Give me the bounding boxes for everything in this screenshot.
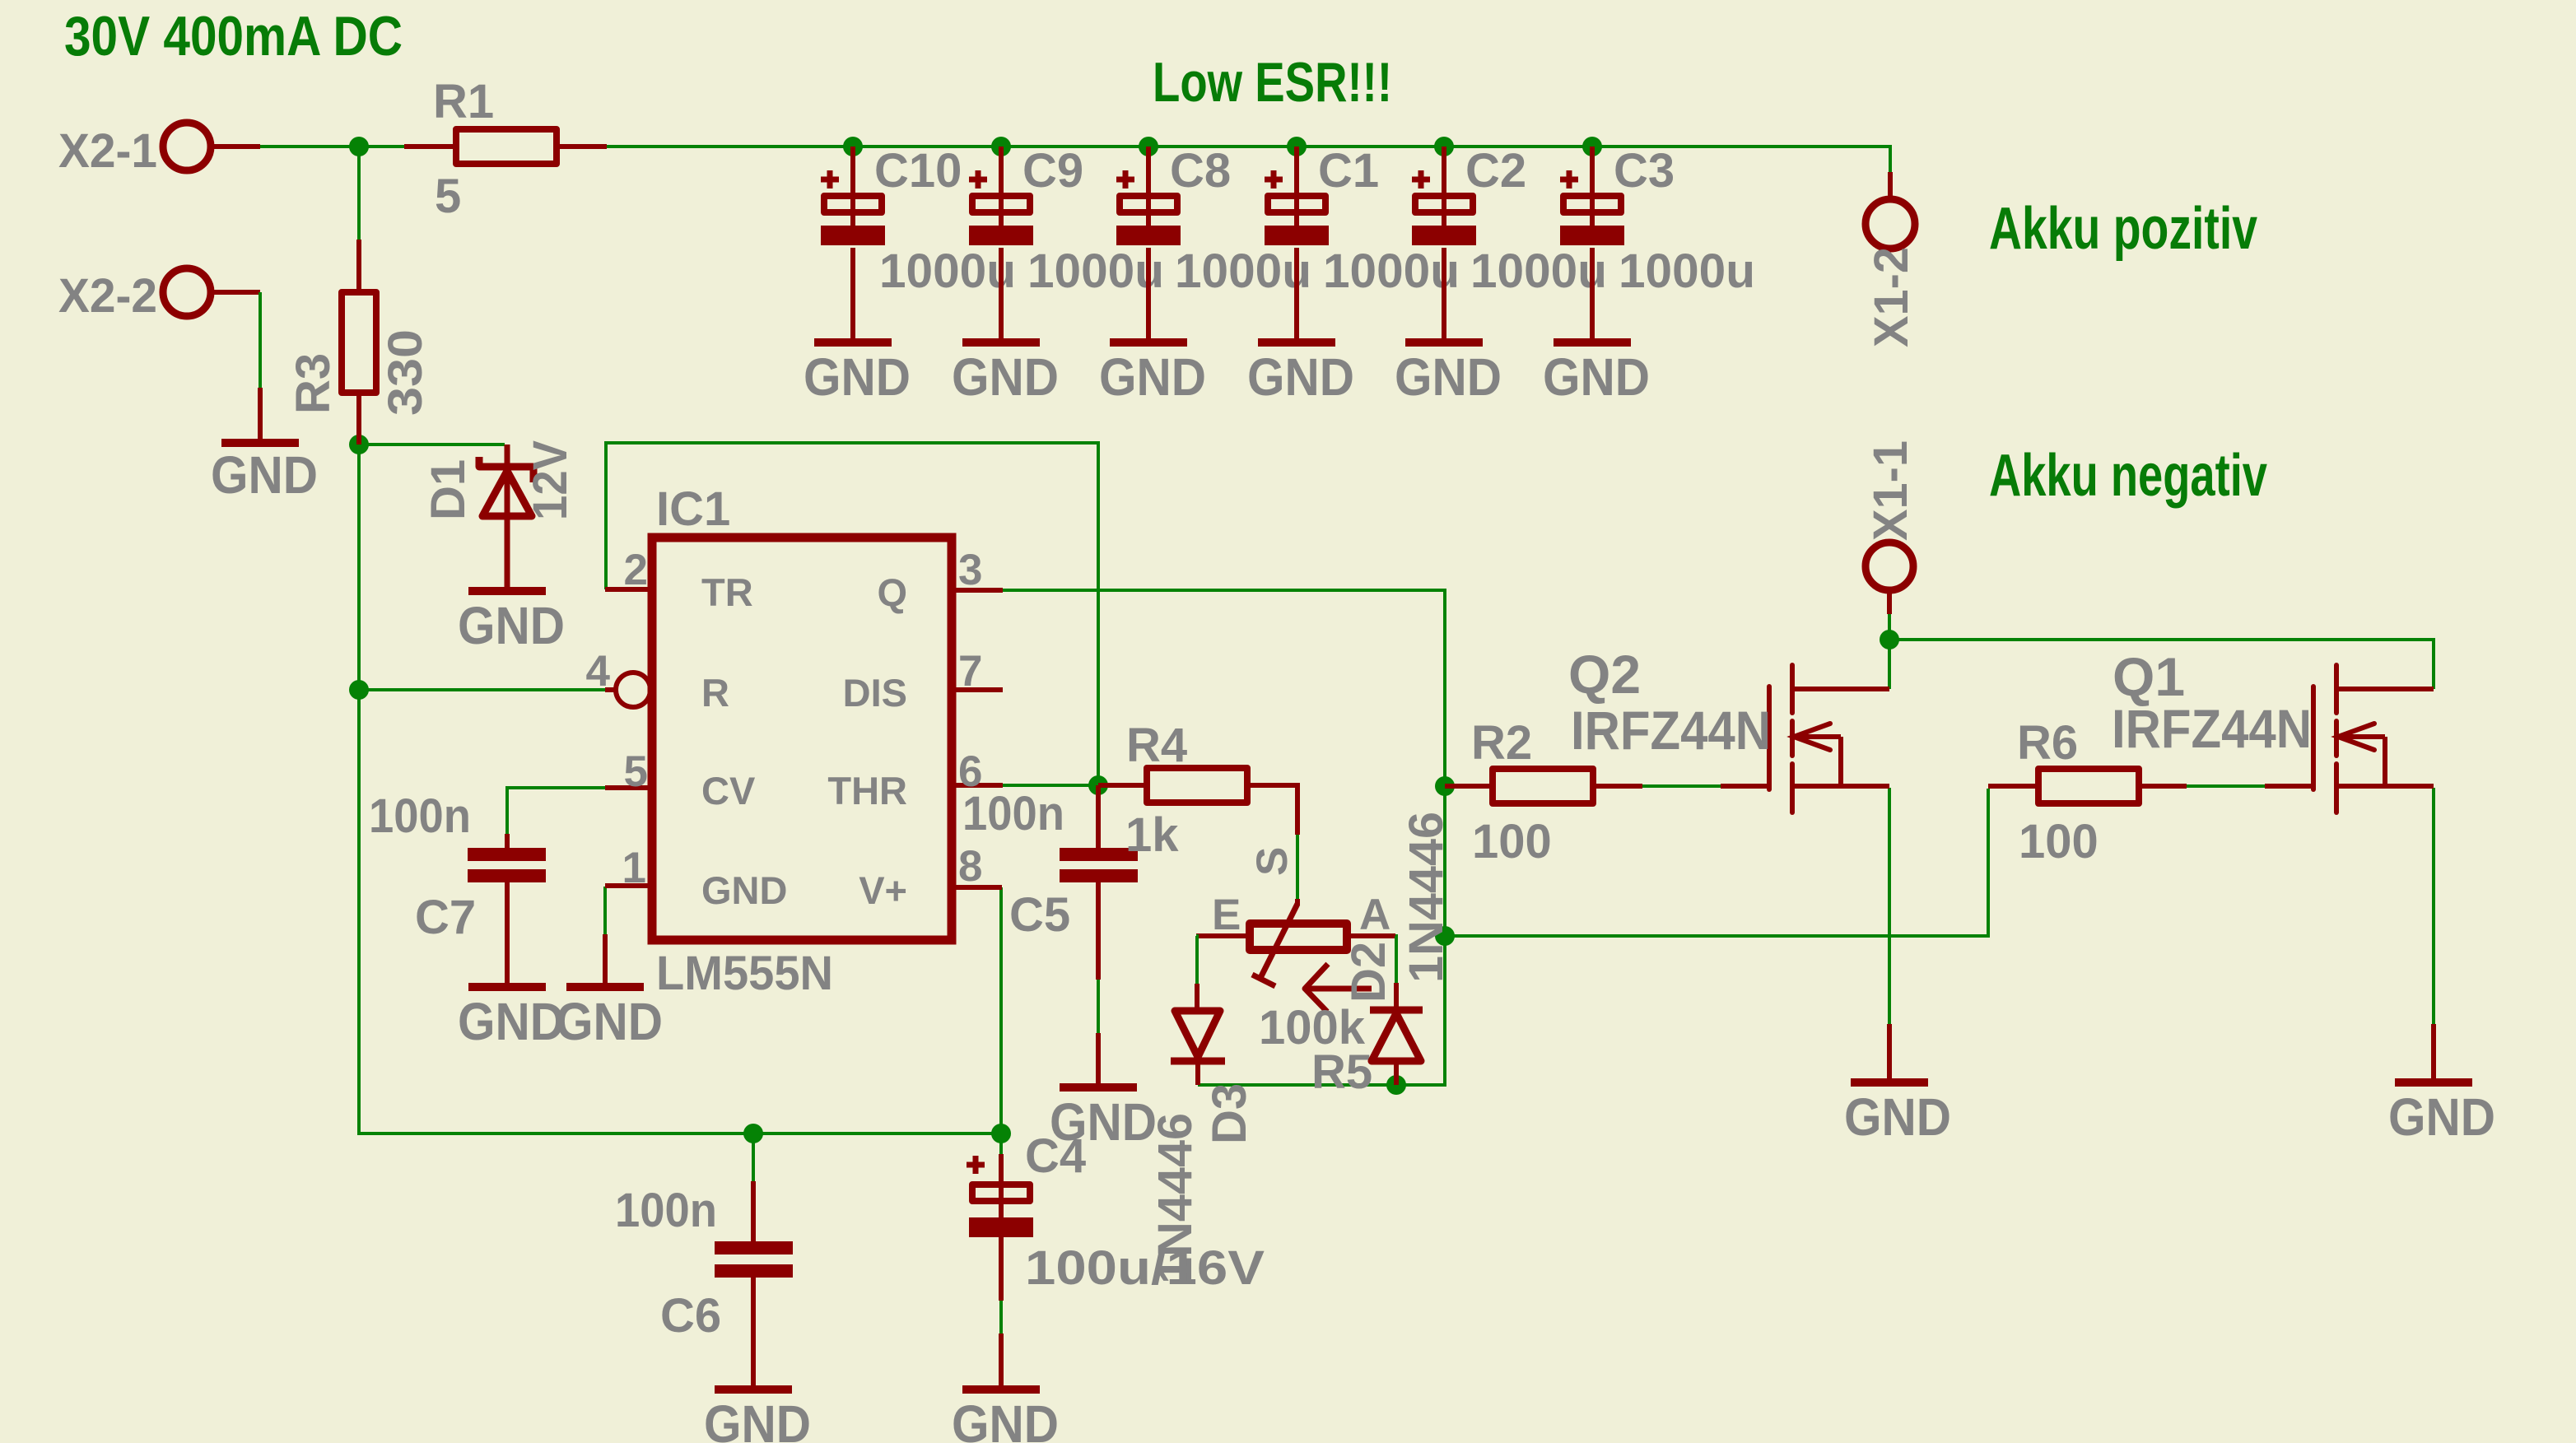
svg-text:330: 330 — [379, 329, 432, 416]
wire pin6 THR to junction — [1003, 784, 1098, 787]
ground symbol below Q2 — [1844, 1024, 1951, 1147]
capacitor C5 100n — [962, 785, 1138, 1083]
junction node R3/D1/rail — [349, 435, 369, 454]
svg-text:100n: 100n — [369, 789, 471, 843]
svg-text:C3: C3 — [1614, 144, 1675, 198]
ground symbol below X2-2 — [211, 388, 318, 505]
wire left 12V rail down and along bottom to V+ — [359, 445, 1001, 1133]
svg-text:C8: C8 — [1170, 144, 1231, 198]
junction node THR/R4/C5 — [1088, 775, 1108, 795]
svg-text:5: 5 — [435, 170, 461, 223]
wire R3 bottom to D1 (12V node) — [359, 443, 505, 446]
wire C4 stub — [999, 1133, 1003, 1154]
svg-text:GND: GND — [1395, 347, 1502, 407]
svg-text:Akku pozitiv: Akku pozitiv — [1989, 196, 2257, 262]
junction node Q/gate-feed — [1435, 926, 1455, 946]
wire C6 stub — [752, 1133, 755, 1181]
capacitor C8 1000u — [1116, 137, 1311, 338]
connector pin X2-1 — [58, 123, 260, 178]
svg-text:Q2: Q2 — [1568, 644, 1641, 705]
svg-text:GND: GND — [804, 347, 911, 407]
pin 6 THR — [827, 747, 1003, 812]
svg-text:1000u: 1000u — [1470, 244, 1607, 298]
svg-text:THR: THR — [827, 769, 907, 812]
ground symbol below C1 — [1247, 338, 1354, 407]
ground symbol below C5 — [1050, 1083, 1157, 1152]
capacitor C7 100n — [369, 789, 546, 983]
capacitor C3 1000u — [1560, 137, 1755, 338]
svg-text:CV: CV — [701, 769, 756, 812]
svg-text:GND: GND — [701, 868, 787, 912]
pin 3 Q — [877, 546, 1003, 614]
capacitor C10 1000u — [821, 137, 1016, 338]
pin 4 R with inversion bubble — [586, 647, 729, 715]
svg-text:DIS: DIS — [843, 671, 907, 715]
svg-text:C6: C6 — [660, 1289, 721, 1343]
ground symbol below pin 1 — [556, 934, 663, 1051]
svg-text:X1-2: X1-2 — [1865, 247, 1918, 347]
svg-text:D3: D3 — [1203, 1083, 1256, 1144]
svg-text:X2-1: X2-1 — [58, 124, 157, 178]
svg-text:GND: GND — [458, 992, 565, 1051]
svg-text:E: E — [1212, 891, 1241, 939]
wire C5 mid segment — [1097, 980, 1100, 1033]
svg-text:12V: 12V — [524, 440, 577, 520]
svg-text:3: 3 — [958, 546, 982, 594]
wire Q output pin3 to R2 and D2/D3 loop — [1003, 590, 1445, 1085]
wire X2-1 to junction and R1 — [260, 145, 404, 148]
resistor R2 100 — [1445, 716, 1642, 868]
svg-text:5: 5 — [624, 747, 648, 796]
svg-text:IRFZ44N: IRFZ44N — [2112, 698, 2312, 759]
diode D3 1N4446 — [1148, 984, 1256, 1284]
svg-text:1: 1 — [622, 844, 646, 892]
svg-text:GND: GND — [952, 347, 1059, 407]
ground symbol below C9 — [952, 338, 1059, 407]
svg-text:1k: 1k — [1125, 808, 1179, 862]
wire CV pin5 to C7 — [507, 788, 605, 834]
wire Q2 source to GND — [1888, 788, 1891, 1024]
svg-text:GND: GND — [458, 596, 565, 655]
ground symbol below C4 — [952, 1385, 1059, 1443]
svg-text:C2: C2 — [1465, 144, 1526, 198]
ground symbol below C8 — [1099, 338, 1206, 407]
capacitor C6 100n — [615, 1181, 793, 1385]
resistor R6 100 — [1988, 716, 2187, 868]
svg-text:100: 100 — [1472, 815, 1552, 868]
svg-text:R3: R3 — [286, 353, 340, 414]
wire V+ pin8 drop to bottom rail — [999, 887, 1003, 1133]
svg-text:R1: R1 — [433, 75, 494, 128]
wire R6 to Q1 gate — [2187, 784, 2265, 788]
capacitor C9 1000u — [969, 137, 1164, 338]
transistor Q2 IRFZ44N — [1568, 644, 1889, 812]
svg-text:C10: C10 — [874, 144, 962, 198]
svg-text:R2: R2 — [1471, 716, 1532, 770]
svg-text:1N4446: 1N4446 — [1148, 1113, 1202, 1284]
zener diode D1 12V — [422, 440, 577, 587]
resistor R4 1k — [1098, 719, 1297, 862]
capacitor C2 1000u — [1412, 137, 1607, 338]
svg-text:Akku negativ: Akku negativ — [1989, 443, 2267, 509]
svg-text:GND: GND — [556, 992, 663, 1051]
svg-text:C1: C1 — [1318, 144, 1379, 198]
resistor R1 — [404, 75, 607, 223]
ground symbol below C2 — [1395, 338, 1502, 407]
ground symbol below C7 — [458, 983, 565, 1051]
svg-text:IC1: IC1 — [656, 482, 730, 536]
svg-text:V+: V+ — [859, 868, 907, 912]
svg-text:1000u: 1000u — [1323, 244, 1460, 298]
junction node X1-1/drains — [1880, 630, 1899, 649]
svg-text:X2-2: X2-2 — [58, 269, 157, 323]
svg-text:8: 8 — [958, 842, 982, 891]
svg-text:C5: C5 — [1009, 888, 1070, 942]
ground symbol below Q1 — [2388, 1024, 2495, 1147]
capacitor C1 1000u — [1265, 137, 1460, 338]
svg-text:C4: C4 — [1025, 1129, 1086, 1183]
connector pin X1-1 — [1864, 440, 1917, 614]
svg-text:R: R — [701, 671, 729, 715]
svg-text:GND: GND — [1099, 347, 1206, 407]
junction node C6 tap — [743, 1124, 763, 1143]
ground symbol below C3 — [1543, 338, 1650, 407]
wire gate feed to R6 — [1445, 789, 1988, 936]
transistor Q1 IRFZ44N — [2112, 646, 2434, 812]
wire junction down to R3 — [357, 147, 361, 240]
svg-text:GND: GND — [1247, 347, 1354, 407]
svg-text:4: 4 — [586, 647, 611, 696]
wire X1-1 to drains of Q2 and Q1 — [1888, 614, 1891, 640]
svg-text:Q: Q — [877, 570, 907, 614]
junction node V+/C4 — [991, 1124, 1011, 1143]
op-amp/timer IC1 LM555N body — [652, 482, 952, 1000]
pin 8 V+ — [859, 842, 1002, 912]
svg-text:1000u: 1000u — [1619, 244, 1755, 298]
wire A pin to D2 — [1395, 936, 1396, 983]
svg-text:D1: D1 — [422, 459, 475, 520]
wire E pin to D3 — [1196, 936, 1197, 984]
svg-text:X1-1: X1-1 — [1864, 440, 1917, 541]
svg-text:GND: GND — [704, 1394, 811, 1443]
svg-text:GND: GND — [952, 1394, 1059, 1443]
svg-text:30V 400mA DC: 30V 400mA DC — [64, 5, 403, 67]
capacitor C4 100u/16V — [967, 1129, 1265, 1385]
resistor R3 — [286, 240, 432, 445]
svg-text:R5: R5 — [1311, 1045, 1372, 1099]
trimmer resistor R5 100k — [1196, 835, 1395, 1099]
diode D2 1N4446 — [1342, 812, 1453, 1085]
ground symbol below C6 — [704, 1385, 811, 1443]
svg-text:100n: 100n — [962, 787, 1064, 840]
pin 5 CV — [605, 747, 756, 812]
wire X2-2 down to GND — [259, 292, 262, 388]
pin 7 DIS — [843, 647, 1003, 715]
ground symbol below C10 — [804, 338, 911, 407]
svg-text:Low ESR!!!: Low ESR!!! — [1153, 51, 1392, 114]
junction node Q/R2 — [1435, 776, 1455, 796]
svg-text:100n: 100n — [615, 1184, 717, 1237]
svg-text:R6: R6 — [2017, 716, 2078, 770]
svg-text:1000u: 1000u — [879, 244, 1016, 298]
svg-text:7: 7 — [958, 647, 982, 696]
wire Q1 source to GND — [2432, 788, 2435, 1024]
svg-text:1000u: 1000u — [1027, 244, 1164, 298]
pin 2 TR — [605, 546, 753, 614]
svg-text:LM555N: LM555N — [656, 947, 833, 1000]
junction node at X2-1/R1/R3 — [349, 137, 369, 156]
svg-text:IRFZ44N: IRFZ44N — [1571, 700, 1771, 761]
svg-text:C7: C7 — [415, 891, 476, 944]
svg-text:C9: C9 — [1022, 144, 1083, 198]
svg-text:R4: R4 — [1126, 719, 1187, 772]
svg-text:GND: GND — [211, 445, 318, 505]
svg-text:1000u: 1000u — [1175, 244, 1311, 298]
svg-text:2: 2 — [624, 546, 648, 594]
svg-text:D2: D2 — [1342, 942, 1395, 1003]
svg-text:GND: GND — [2388, 1087, 2495, 1147]
svg-text:S: S — [1248, 847, 1297, 876]
connector pin X2-2 — [58, 268, 260, 323]
svg-text:TR: TR — [701, 570, 753, 614]
svg-text:A: A — [1359, 891, 1390, 939]
wire top supply bus R1 to X1-2 — [607, 147, 1890, 172]
junction node at reset branch — [349, 680, 369, 700]
wire GND pin1 drop — [603, 887, 607, 934]
pin 1 GND — [605, 844, 787, 912]
svg-text:100u/16V: 100u/16V — [1025, 1241, 1265, 1295]
wire R2 to Q2 gate — [1642, 784, 1721, 788]
wire reset pin 4 branch — [359, 688, 605, 691]
svg-text:100: 100 — [2019, 815, 2099, 868]
ground symbol below D1 — [458, 587, 565, 655]
junction node D2 anode — [1386, 1075, 1406, 1095]
svg-text:1N4446: 1N4446 — [1400, 812, 1453, 983]
svg-text:GND: GND — [1844, 1087, 1951, 1147]
svg-text:GND: GND — [1543, 347, 1650, 407]
wire TR/THR net pin2 riser — [606, 443, 1098, 785]
connector pin X1-2 — [1865, 172, 1918, 347]
